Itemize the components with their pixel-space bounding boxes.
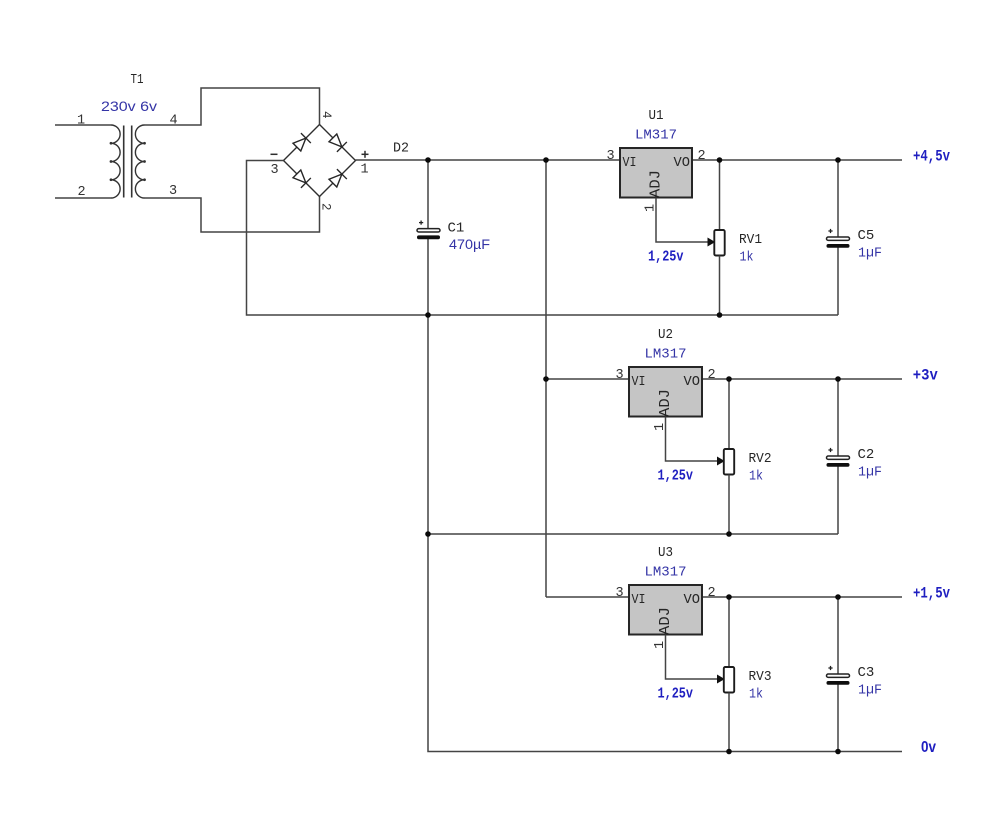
diode D2 bottom-left arm [292,169,311,188]
svg-text:+3v: +3v [913,367,938,385]
diode D2 top-right arm [328,133,347,152]
wire T1 pin1 [55,124,111,126]
svg-text:ADJ: ADJ [648,170,665,198]
wire C5 top [837,160,839,237]
svg-text:1k: 1k [749,687,763,703]
junction C3 top [835,594,841,600]
svg-text:C3: C3 [858,665,875,681]
wire C3 top [837,597,839,674]
svg-text:1: 1 [77,114,85,129]
wire U2 input rail [546,378,902,380]
svg-text:1µF: 1µF [858,465,882,481]
svg-text:U3: U3 [658,545,673,561]
svg-text:VI: VI [632,592,646,608]
wire C5 bottom [837,248,839,316]
wire C3 bottom [837,685,839,752]
RV3 wiper arrow [718,675,724,682]
wire C2 top [837,379,839,456]
junction C5 top [835,157,841,163]
svg-text:VI: VI [623,155,637,171]
svg-text:RV3: RV3 [749,669,772,685]
wire vertical feed to U2/U3 inputs [545,160,547,597]
svg-text:VO: VO [684,374,701,390]
bridge minus sign [271,153,278,155]
svg-text:1k: 1k [740,250,754,266]
svg-text:+1,5v: +1,5v [913,585,950,603]
svg-text:U2: U2 [658,327,673,343]
wire C1 bottom / ground bus to 0v [428,239,902,752]
junction U2 input tap [543,376,549,382]
svg-text:3: 3 [169,184,177,199]
wire RV3 bottom [728,693,730,753]
svg-text:RV2: RV2 [749,451,772,467]
svg-text:LM317: LM317 [635,128,677,144]
RV2 wiper arrow [718,457,724,464]
diode D2 top-left arm [292,133,311,152]
wire RV2 bottom [728,475,730,535]
capacitor C5 [827,229,850,248]
wire T1 pin4 to bridge AC top [145,88,320,125]
svg-text:C5: C5 [858,228,875,244]
svg-text:1µF: 1µF [858,246,882,262]
svg-text:VO: VO [674,155,691,171]
svg-text:T1: T1 [131,72,144,88]
bridge rectifier D2 diamond [284,125,356,197]
potentiometer RV2 body [724,449,734,475]
svg-text:3: 3 [615,368,623,383]
svg-text:4: 4 [169,114,177,129]
svg-text:U1: U1 [649,108,664,124]
junction C3 bottom / 0v rail [835,749,841,755]
junction RV2 top [726,376,732,382]
wire RV1 top [719,160,721,230]
potentiometer RV1 body [714,230,724,256]
junction RV3 bottom / 0v rail [726,749,732,755]
svg-text:2: 2 [707,368,715,383]
junction RV3 top [726,594,732,600]
junction C1 bottom [425,312,431,318]
junction bridge output / C1 [425,157,431,163]
junction feed tap [543,157,549,163]
svg-text:+4,5v: +4,5v [913,148,950,166]
svg-text:D2: D2 [393,141,409,157]
junction RV1 bottom [717,312,723,318]
potentiometer RV3 body [724,667,734,693]
svg-text:2: 2 [697,149,705,164]
svg-text:VO: VO [684,592,701,608]
svg-text:3: 3 [615,586,623,601]
svg-text:1,25v: 1,25v [658,686,694,703]
op-amp regulator U1 LM317 [620,148,692,198]
svg-text:3: 3 [270,163,278,178]
RV1 wiper arrow [708,238,714,245]
svg-text:4: 4 [319,111,333,119]
capacitor C2 [827,448,850,467]
wire RV3 top [728,597,730,667]
svg-text:470µF: 470µF [449,236,490,252]
svg-text:230v 6v: 230v 6v [101,98,157,114]
wire U2 ADJ to RV2 wiper [666,417,723,462]
capacitor C3 [827,666,850,685]
wire C1 top [427,160,429,229]
junction C2 top [835,376,841,382]
junction ground bus / U2 ground branch [425,531,431,537]
wire positive rail from bridge to +4,5v output [356,159,903,161]
wire RV2 top [728,379,730,449]
wire bridge negative to node V- [247,161,839,316]
wire C2 bottom [837,467,839,535]
svg-text:2: 2 [707,586,715,601]
op-amp regulator U2 LM317 [629,367,702,417]
svg-text:ADJ: ADJ [657,389,674,417]
svg-text:LM317: LM317 [645,565,687,581]
svg-text:1,25v: 1,25v [648,249,684,266]
svg-text:LM317: LM317 [645,347,687,363]
wire U3 ADJ to RV3 wiper [666,635,723,680]
wire T1 pin2 [55,197,111,199]
diode D2 bottom-right arm [328,169,347,188]
wire U3 output rail [546,596,902,598]
capacitor C1 [417,221,440,240]
svg-text:RV1: RV1 [739,232,762,248]
junction RV2 bottom [726,531,732,537]
svg-text:VI: VI [632,374,646,390]
wire U2 ground branch [428,533,838,535]
op-amp regulator U3 LM317 [629,585,702,635]
wire T1 pin3 to bridge AC bottom [145,197,320,233]
svg-text:C1: C1 [448,221,465,237]
svg-text:1: 1 [360,163,368,178]
svg-text:ADJ: ADJ [657,607,674,635]
svg-text:C2: C2 [858,447,875,463]
wire U1 ADJ to RV1 wiper [656,198,713,243]
wire RV1 bottom [719,256,721,316]
svg-text:1µF: 1µF [858,683,882,699]
transformer T1 [110,125,146,198]
bridge plus sign [362,153,369,155]
svg-text:1k: 1k [749,469,763,485]
svg-text:0v: 0v [921,739,936,756]
svg-text:3: 3 [606,149,614,164]
svg-text:2: 2 [319,203,333,211]
svg-text:1,25v: 1,25v [658,468,694,485]
junction RV1 top [717,157,723,163]
